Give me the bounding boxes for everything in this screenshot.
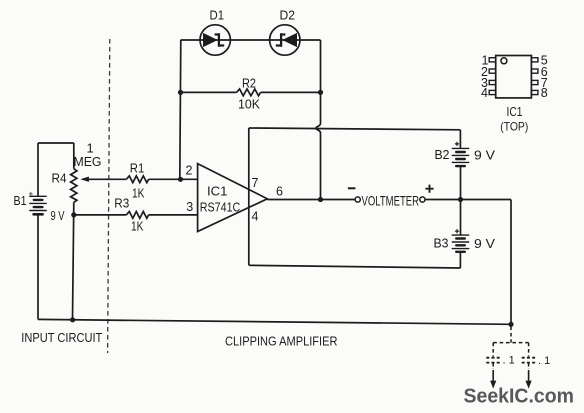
svg-text:B2: B2 bbox=[435, 148, 450, 162]
svg-text:4: 4 bbox=[252, 210, 259, 224]
IC1 pin 8 stub bbox=[531, 90, 538, 94]
diode D2 zener bar bbox=[276, 33, 286, 46]
IC1 pin 1 indicator circle bbox=[501, 58, 507, 64]
svg-text:10K: 10K bbox=[238, 97, 260, 112]
wire R1 to op-amp pin 2 bbox=[149, 178, 198, 180]
svg-text:RS741C: RS741C bbox=[200, 200, 241, 215]
capacitor C1 lower dashed stub bbox=[492, 364, 494, 370]
node output / riser junction bbox=[318, 197, 323, 202]
wire op-amp output row bbox=[267, 199, 355, 201]
diode D1 zener bar bbox=[215, 33, 225, 46]
node R1 / riser junction bbox=[178, 177, 183, 182]
node battery mid junction bbox=[458, 197, 463, 202]
svg-text:R2: R2 bbox=[242, 76, 256, 91]
svg-text:. 1: . 1 bbox=[538, 355, 550, 367]
dashed lead from bottom junction bbox=[510, 327, 512, 343]
op-amp U1 triangle bbox=[198, 164, 268, 232]
wire pin7/pin4 riser through op-amp bbox=[248, 128, 250, 265]
wire B1 top to R4 top bbox=[38, 142, 74, 144]
wire B3 top lead bbox=[460, 200, 462, 236]
resistor R1 zigzag bbox=[126, 176, 148, 183]
wire R4 top lead bbox=[73, 143, 75, 169]
wire right edge column bbox=[510, 200, 512, 325]
battery B1 polarity plus bbox=[29, 192, 33, 196]
node bottom right junction bbox=[508, 322, 513, 327]
wire R4 bottom lead to rail bbox=[73, 202, 74, 319]
wire B1 top lead bbox=[37, 143, 39, 196]
wire B1 bottom lead bbox=[37, 215, 39, 320]
wire R4 junction to R3 bbox=[74, 214, 127, 216]
capacitor C2 lower dashed stub bbox=[528, 364, 530, 370]
resistor R2 zigzag bbox=[237, 89, 261, 96]
label minus sign bbox=[348, 187, 356, 189]
svg-text:. 1: . 1 bbox=[503, 355, 515, 367]
svg-text:4: 4 bbox=[481, 86, 488, 100]
svg-text:MEG: MEG bbox=[74, 155, 102, 169]
wiper arrow into R4 bbox=[80, 177, 89, 182]
diode D1 circle bbox=[200, 25, 230, 55]
wire bottom rail bbox=[38, 319, 511, 324]
svg-text:1K: 1K bbox=[131, 219, 144, 234]
IC1 pin 5 stub bbox=[531, 58, 538, 62]
svg-text:2: 2 bbox=[186, 164, 193, 178]
wire right riser with hop over supply line bbox=[316, 40, 321, 200]
svg-text:IC1: IC1 bbox=[207, 184, 228, 199]
svg-text:9 V: 9 V bbox=[51, 209, 65, 223]
wire positive supply top horizontal bbox=[249, 128, 461, 130]
diode D2 triangle bbox=[282, 33, 297, 47]
wire left riser (diode row to R1 row) bbox=[180, 40, 181, 179]
svg-text:3: 3 bbox=[186, 200, 193, 214]
svg-text:R1: R1 bbox=[130, 161, 145, 176]
svg-text:9 V: 9 V bbox=[474, 237, 496, 251]
svg-text:INPUT CIRCUIT: INPUT CIRCUIT bbox=[21, 331, 102, 345]
svg-text:R3: R3 bbox=[114, 196, 129, 211]
wire junction to right edge bbox=[461, 199, 512, 201]
svg-text:1: 1 bbox=[87, 141, 94, 156]
dashed right branch lead bbox=[528, 343, 530, 357]
node R2 left junction bbox=[178, 90, 183, 95]
potentiometer R4 zigzag bbox=[71, 169, 77, 203]
arrow below C2 bbox=[528, 370, 530, 382]
IC1 pin 4 stub bbox=[489, 90, 496, 94]
voltmeter plus terminal circle bbox=[420, 197, 425, 202]
IC1 pin 6 stub bbox=[531, 69, 538, 73]
dashed left branch lead bbox=[492, 343, 494, 357]
svg-text:1K: 1K bbox=[132, 186, 145, 201]
IC1 pin 1 stub bbox=[489, 58, 496, 62]
wire B2 top lead bbox=[459, 130, 461, 148]
dashed horizontal branch bbox=[493, 342, 528, 344]
svg-text:8: 8 bbox=[541, 86, 548, 100]
svg-text:6: 6 bbox=[276, 185, 283, 199]
capacitor C1 dashed plates (0.1) bbox=[486, 358, 500, 363]
wire R2 row right bbox=[261, 91, 321, 93]
wire R3 to op-amp pin 3 bbox=[149, 214, 198, 216]
wire top diode row bbox=[181, 39, 321, 41]
wire R2 row left bbox=[181, 91, 237, 93]
svg-text:9 V: 9 V bbox=[474, 149, 496, 163]
node R2 right junction bbox=[318, 90, 323, 95]
wire negative supply bottom horizontal bbox=[249, 265, 461, 268]
battery B3 polarity plus bbox=[455, 229, 459, 233]
svg-text:R4: R4 bbox=[52, 171, 67, 186]
svg-text:CLIPPING AMPLIFIER: CLIPPING AMPLIFIER bbox=[225, 334, 338, 348]
battery B3 plates bbox=[452, 235, 468, 252]
svg-text:VOLTMETER: VOLTMETER bbox=[362, 193, 420, 209]
svg-text:D2: D2 bbox=[280, 8, 296, 23]
wire wiper to R1 bbox=[87, 178, 127, 180]
svg-text:D1: D1 bbox=[210, 8, 225, 23]
label plus sign bbox=[425, 185, 433, 193]
node R4 wiper-row junction bbox=[71, 212, 76, 217]
capacitor C2 dashed plates (0.1) bbox=[522, 358, 536, 363]
svg-text:B3: B3 bbox=[434, 237, 449, 251]
voltmeter minus terminal circle bbox=[355, 197, 360, 202]
battery B2 plates bbox=[452, 148, 468, 166]
IC1 pin 3 stub bbox=[489, 80, 496, 84]
svg-text:7: 7 bbox=[252, 176, 259, 190]
svg-text:SeekIC.com: SeekIC.com bbox=[464, 385, 575, 408]
wire voltmeter plus to battery junction bbox=[425, 199, 460, 201]
IC1 DIP package body (top view) bbox=[496, 56, 532, 98]
battery B1 plates bbox=[30, 196, 46, 214]
IC1 pin 7 stub bbox=[531, 80, 538, 84]
svg-text:(TOP): (TOP) bbox=[500, 120, 528, 134]
svg-text:B1: B1 bbox=[14, 194, 27, 208]
wire B3 bottom lead bbox=[459, 252, 461, 268]
svg-text:IC1: IC1 bbox=[507, 104, 523, 119]
resistor R3 zigzag bbox=[126, 212, 148, 219]
node R4 column at bottom rail bbox=[70, 317, 75, 322]
diode D1 triangle bbox=[203, 33, 218, 47]
wire B2 bottom lead bbox=[460, 166, 462, 199]
diode D2 circle bbox=[270, 25, 300, 55]
arrow below C1 bbox=[492, 370, 494, 382]
IC1 pin 2 stub bbox=[489, 69, 496, 73]
battery B2 polarity plus bbox=[455, 142, 459, 146]
dashed boundary line between input circuit and clipping amplifier bbox=[108, 39, 110, 353]
